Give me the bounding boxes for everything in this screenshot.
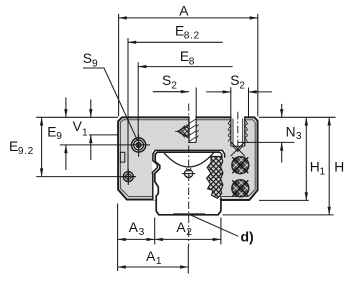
svg-text:d): d) (241, 229, 254, 245)
E9.2 bottom reference line (36, 176, 136, 178)
svg-text:3: 3 (139, 227, 145, 238)
lube channel section (187, 116, 199, 142)
rail (155, 152, 221, 215)
dimension E9.2 line and arrows (41, 117, 43, 176)
dimension V1 arrows (90, 100, 92, 161)
svg-text:H: H (310, 159, 320, 174)
dimension S2 left line and arrow (153, 91, 189, 93)
svg-text:S: S (162, 73, 171, 88)
svg-text:2: 2 (186, 227, 192, 238)
svg-text:E: E (47, 124, 56, 139)
dimension E8 extension line (137, 62, 139, 140)
svg-text:9.2: 9.2 (18, 146, 34, 157)
drill cone (233, 146, 243, 151)
tapped hole S2 section (228, 116, 248, 156)
side lube port bump (120, 152, 124, 162)
svg-text:S: S (83, 51, 92, 66)
svg-text:A: A (146, 249, 156, 264)
dimension S2 right extension lines (231, 87, 249, 117)
arch center fork (186, 168, 191, 171)
dimension E9 arrows (65, 98, 67, 171)
svg-text:N: N (286, 124, 296, 139)
claw section hatched (196, 128, 236, 225)
A3 arrowheads (118, 238, 155, 241)
svg-text:A: A (129, 220, 139, 235)
dimension H line and arrows (328, 117, 330, 215)
dimension H1 line and arrows (305, 117, 307, 200)
A2 arrowheads (155, 238, 221, 241)
rail top right corner (220, 152, 222, 158)
N3 bottom reference line (238, 141, 294, 143)
dimension A1 line (118, 266, 189, 268)
main centerline (188, 104, 190, 247)
svg-text:A: A (176, 220, 186, 235)
carriage inner face outline (120, 120, 255, 197)
svg-text:1: 1 (320, 166, 326, 177)
ball upper (230, 153, 251, 176)
channel thread flank ticks (187, 125, 199, 139)
dimension E8 line (138, 66, 232, 68)
right top reference line (259, 116, 336, 118)
end-cap screw S9 upper left (132, 134, 146, 156)
svg-text:E: E (9, 139, 18, 154)
carriage bottom edge left (127, 199, 153, 201)
svg-text:H: H (334, 159, 344, 174)
label d with leader (190, 215, 239, 237)
thread coil flanks (228, 120, 231, 142)
dimension N3 arrows (281, 104, 283, 163)
left top reference line (36, 116, 118, 118)
rail cavity gap outline (152, 150, 224, 200)
S2 right lines and arrows (206, 91, 272, 93)
dimension A extension lines (119, 14, 258, 117)
svg-text:A: A (179, 3, 189, 18)
end-cap arch over rail (164, 153, 214, 167)
carriage body (118, 117, 258, 200)
lube funnel cone (175, 125, 189, 138)
dimension A arrowheads (119, 16, 258, 19)
dimension E8 arrowhead (138, 65, 146, 68)
svg-text:3: 3 (296, 131, 302, 142)
dimension E8.2 extension line (127, 38, 129, 171)
svg-text:1: 1 (82, 127, 88, 138)
S2 left extension line (195, 88, 197, 117)
dimension A line (119, 17, 258, 19)
ball lower (230, 177, 251, 200)
rail fixing screw mark (182, 170, 195, 178)
H bottom reference line (223, 214, 334, 216)
svg-text:2: 2 (239, 80, 245, 91)
end-cap screw lower left (121, 169, 136, 185)
dimension E8.2 line (128, 41, 223, 43)
rail cavity white region (152, 150, 225, 215)
svg-text:8.2: 8.2 (184, 31, 200, 42)
svg-text:2: 2 (171, 81, 177, 92)
svg-text:S: S (230, 73, 239, 88)
svg-text:9: 9 (56, 131, 62, 142)
bottom extension lines (118, 204, 221, 274)
E9 bottom reference line (60, 144, 150, 146)
hole axis centerline (237, 112, 239, 153)
dimension E8.2 arrowhead (128, 41, 136, 44)
rail bottom relief groove (173, 212, 205, 214)
dimension A3 A2 line (118, 238, 221, 240)
svg-text:8: 8 (189, 56, 195, 67)
H1 bottom reference line (259, 199, 309, 201)
V1 bottom reference line (89, 134, 118, 136)
svg-text:1: 1 (156, 256, 162, 267)
carriage bottom edge right (220, 199, 250, 200)
